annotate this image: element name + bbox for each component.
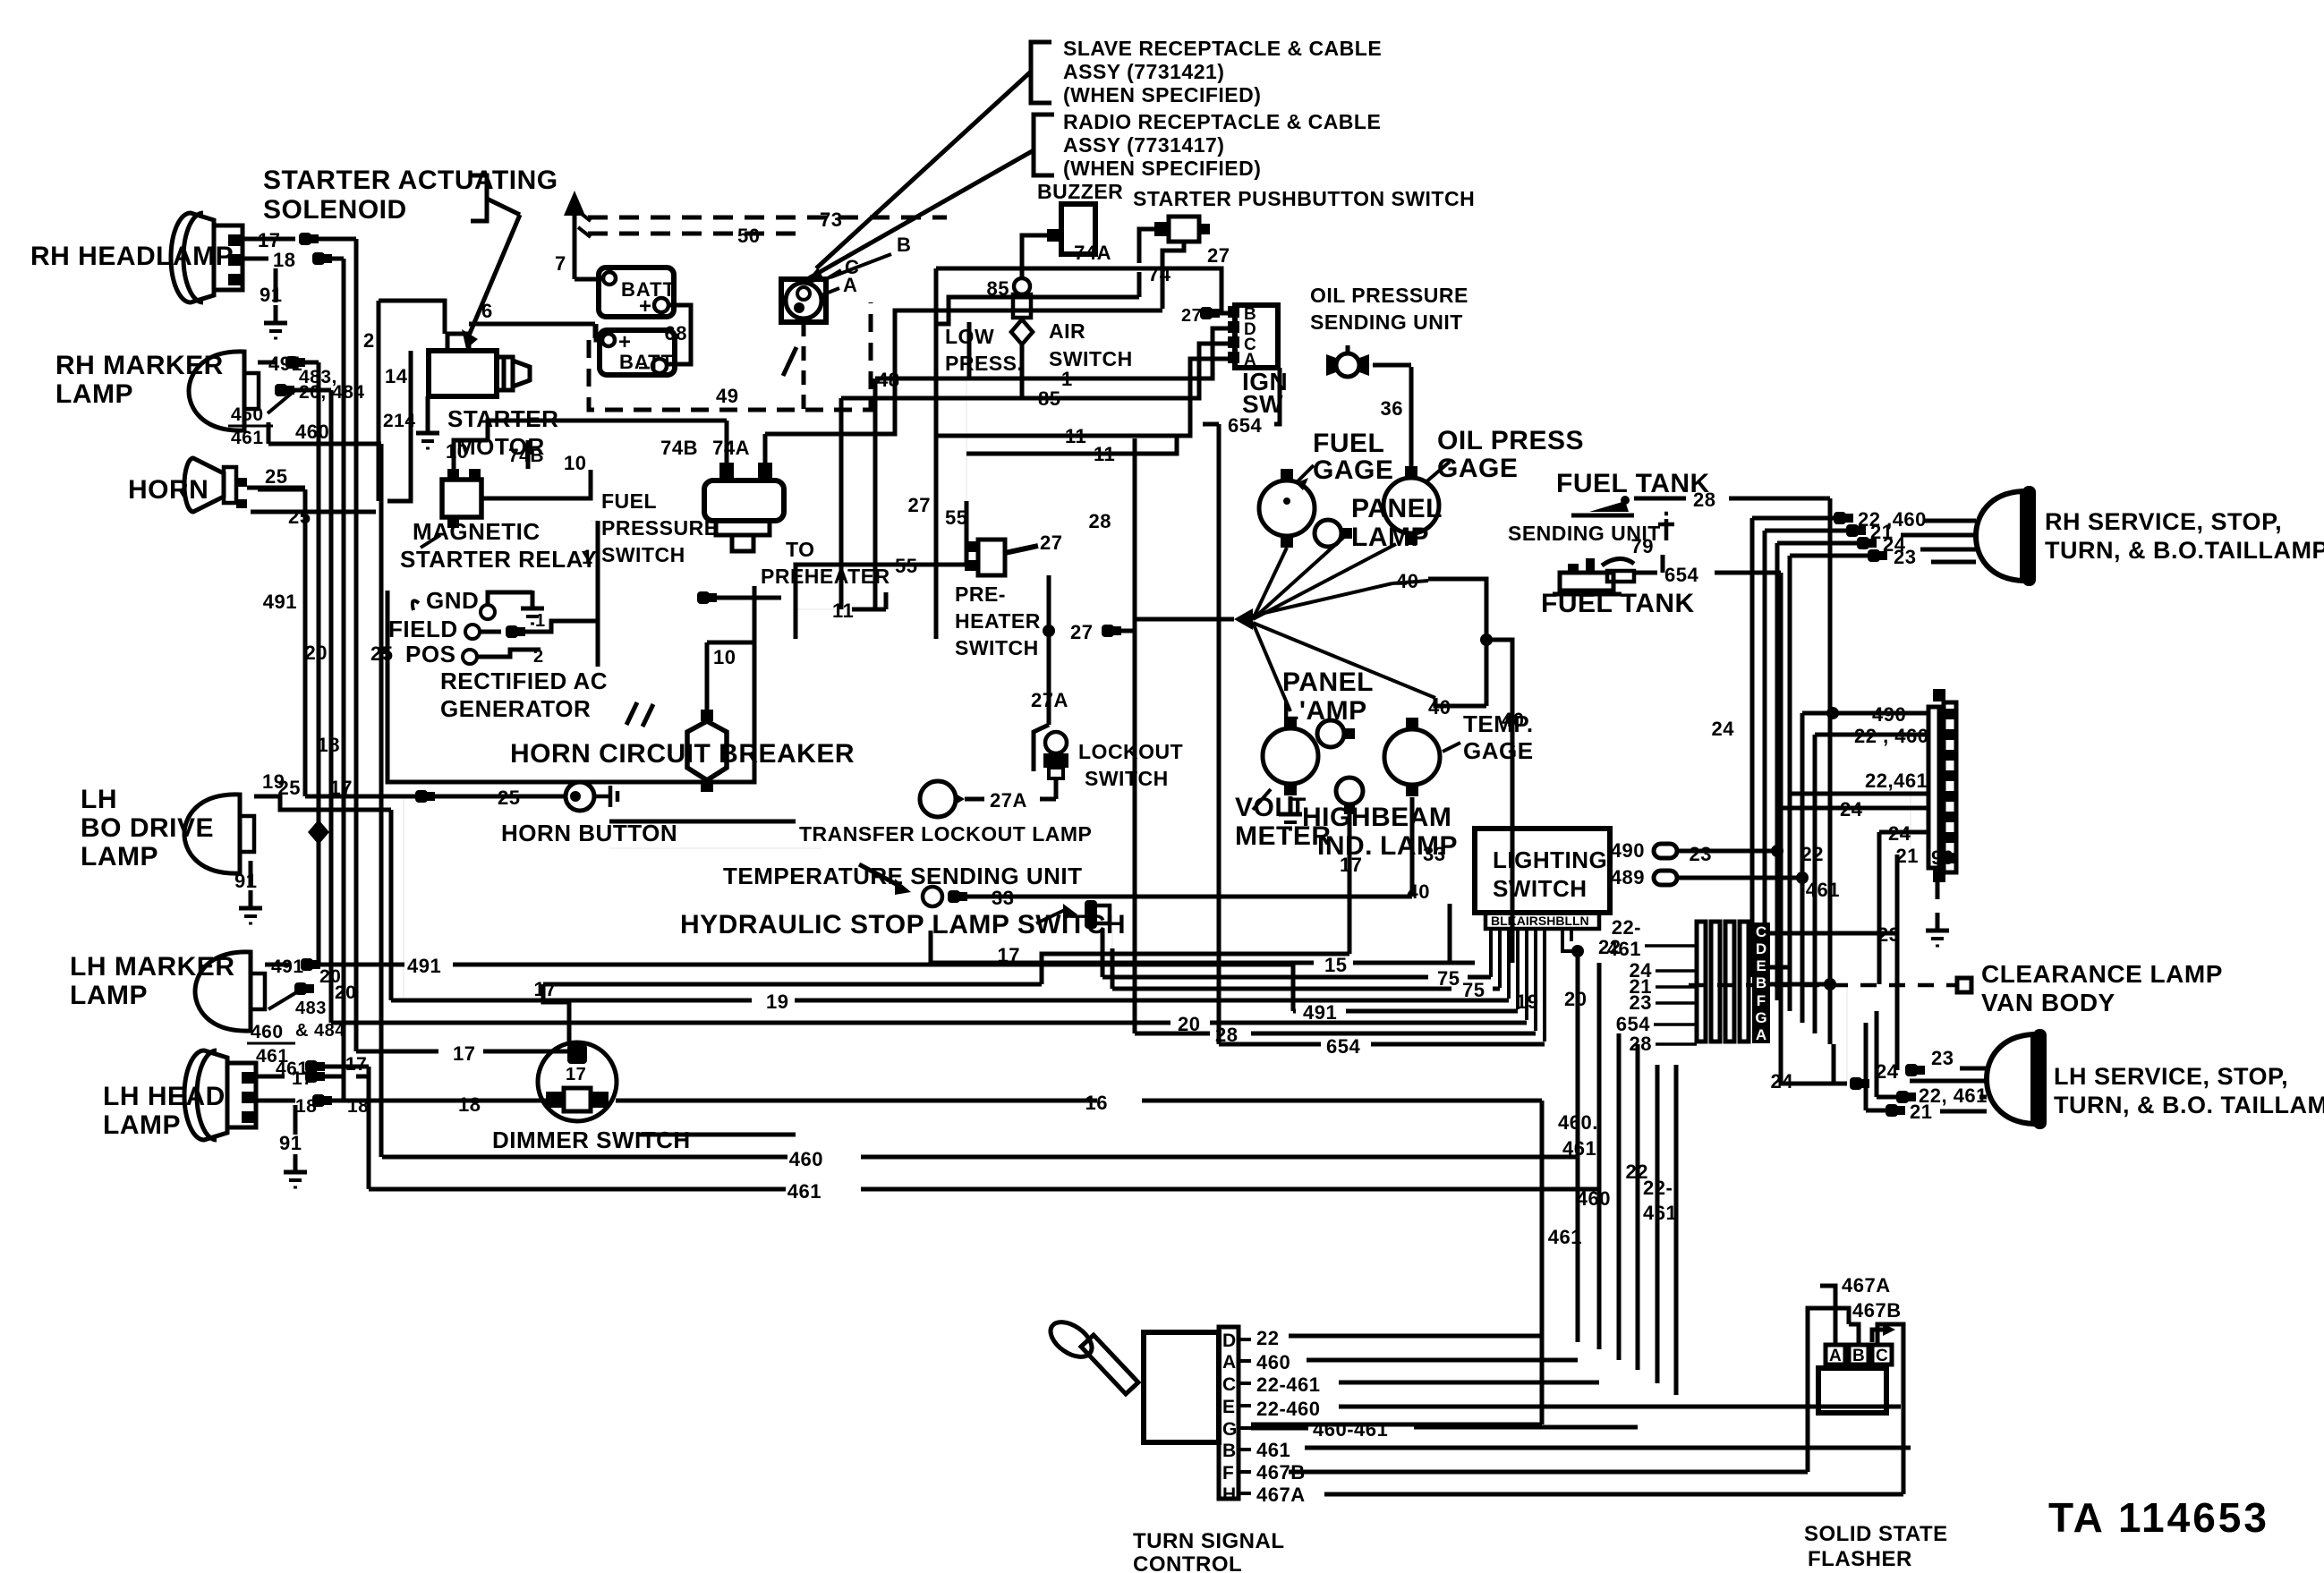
- svg-text:STARTER ACTUATING: STARTER ACTUATING: [263, 166, 558, 195]
- svg-text:HORN: HORN: [128, 475, 209, 505]
- svg-text:PANEL: PANEL: [1282, 667, 1374, 697]
- svg-text:TURN SIGNAL: TURN SIGNAL: [1133, 1529, 1285, 1553]
- svg-text:22-: 22-: [1643, 1177, 1673, 1199]
- svg-text:460: 460: [1577, 1187, 1611, 1210]
- svg-text:(WHEN SPECIFIED): (WHEN SPECIFIED): [1063, 83, 1261, 106]
- svg-text:74A: 74A: [1074, 242, 1111, 264]
- svg-text:461: 461: [1562, 1137, 1596, 1160]
- svg-text:H: H: [1222, 1484, 1237, 1505]
- svg-text:460: 460: [231, 404, 264, 425]
- svg-text:A: A: [1244, 351, 1256, 370]
- svg-text:23: 23: [1630, 991, 1652, 1014]
- svg-text:91: 91: [279, 1132, 302, 1154]
- svg-text:22: 22: [1256, 1327, 1279, 1349]
- svg-text:RH SERVICE, STOP,: RH SERVICE, STOP,: [2045, 508, 2282, 535]
- svg-text:G: G: [1222, 1419, 1238, 1440]
- svg-text:654: 654: [1228, 414, 1262, 437]
- svg-text:LH SERVICE, STOP,: LH SERVICE, STOP,: [2054, 1063, 2288, 1090]
- svg-text:461: 461: [1607, 938, 1641, 960]
- svg-text:21: 21: [1910, 1101, 1932, 1123]
- svg-text:22 , 460: 22 , 460: [1854, 725, 1929, 747]
- svg-text:19: 19: [1516, 991, 1538, 1013]
- svg-text:19: 19: [766, 991, 788, 1013]
- svg-text:TRANSFER LOCKOUT LAMP: TRANSFER LOCKOUT LAMP: [799, 822, 1092, 846]
- svg-text:2: 2: [533, 647, 544, 667]
- svg-text:460: 460: [789, 1148, 823, 1170]
- svg-text:B: B: [1756, 974, 1766, 991]
- svg-text:A: A: [1222, 1352, 1237, 1373]
- svg-text:20: 20: [1564, 988, 1587, 1010]
- svg-text:460-461: 460-461: [1313, 1418, 1388, 1441]
- svg-text:TEMP.: TEMP.: [1463, 710, 1534, 737]
- svg-text:490: 490: [1872, 703, 1906, 726]
- svg-text:LAMP: LAMP: [70, 981, 148, 1010]
- svg-text:22-461: 22-461: [1256, 1373, 1321, 1396]
- svg-text:91: 91: [234, 870, 257, 892]
- svg-text:PREHEATER: PREHEATER: [761, 565, 890, 588]
- svg-text:27: 27: [908, 494, 931, 516]
- svg-text:461: 461: [231, 428, 264, 448]
- svg-text:C: C: [1876, 1347, 1888, 1365]
- svg-text:18: 18: [458, 1093, 481, 1116]
- svg-text:HORN CIRCUIT BREAKER: HORN CIRCUIT BREAKER: [510, 739, 855, 769]
- svg-text:LIGHTING: LIGHTING: [1493, 846, 1607, 873]
- svg-text:27A: 27A: [990, 789, 1027, 812]
- svg-text:D: D: [1222, 1331, 1237, 1351]
- svg-text:OIL PRESSURE: OIL PRESSURE: [1310, 284, 1468, 307]
- svg-text:LH MARKER: LH MARKER: [70, 952, 235, 982]
- svg-text:PRE-: PRE-: [955, 582, 1006, 606]
- svg-text:27: 27: [1040, 531, 1062, 554]
- svg-text:74A: 74A: [712, 437, 750, 459]
- svg-text:25: 25: [498, 786, 520, 809]
- svg-text:HEATER: HEATER: [955, 609, 1041, 633]
- svg-text:E: E: [1756, 957, 1766, 974]
- svg-text:25: 25: [288, 506, 311, 528]
- svg-text:22: 22: [1801, 843, 1824, 865]
- svg-text:10: 10: [564, 452, 586, 474]
- svg-text:LAMP: LAMP: [55, 379, 133, 409]
- svg-text:STARTER RELAY: STARTER RELAY: [400, 546, 597, 573]
- svg-text:CLEARANCE LAMP: CLEARANCE LAMP: [1981, 960, 2223, 988]
- svg-text:49: 49: [716, 385, 738, 407]
- svg-text:461: 461: [1806, 879, 1840, 901]
- svg-text:491: 491: [271, 957, 304, 977]
- svg-text:491: 491: [407, 955, 441, 977]
- svg-text:SWITCH: SWITCH: [601, 543, 685, 566]
- svg-text:24: 24: [1840, 798, 1863, 821]
- svg-text:85: 85: [1038, 387, 1060, 410]
- svg-text:6: 6: [481, 300, 493, 322]
- svg-text:LOCKOUT: LOCKOUT: [1078, 740, 1183, 763]
- svg-text:(WHEN SPECIFIED): (WHEN SPECIFIED): [1063, 157, 1261, 180]
- svg-text:SOLENOID: SOLENOID: [263, 195, 407, 225]
- svg-text:RH HEADLAMP: RH HEADLAMP: [30, 242, 234, 271]
- svg-text:28: 28: [1630, 1033, 1652, 1055]
- svg-text:27: 27: [1181, 306, 1202, 326]
- svg-text:RADIO RECEPTACLE & CABLE: RADIO RECEPTACLE & CABLE: [1063, 110, 1381, 133]
- svg-text:LH: LH: [81, 785, 117, 814]
- svg-text:C: C: [1222, 1374, 1237, 1395]
- svg-text:1: 1: [1061, 368, 1073, 390]
- svg-text:PRESS.: PRESS.: [945, 352, 1023, 375]
- svg-text:460: 460: [1256, 1351, 1290, 1373]
- svg-text:FUEL TANK: FUEL TANK: [1556, 469, 1710, 498]
- svg-text:17: 17: [534, 978, 557, 1000]
- svg-text:17: 17: [566, 1065, 586, 1084]
- svg-text:11: 11: [1065, 425, 1086, 447]
- svg-text:FIELD: FIELD: [388, 616, 458, 642]
- svg-text:F: F: [1222, 1463, 1234, 1484]
- svg-text:40: 40: [1408, 880, 1430, 903]
- svg-text:18: 18: [318, 734, 340, 756]
- svg-text:24: 24: [1888, 822, 1911, 845]
- svg-text:25: 25: [265, 465, 287, 488]
- svg-text:483: 483: [295, 999, 327, 1018]
- svg-text:214: 214: [383, 411, 416, 431]
- svg-text:79: 79: [1631, 535, 1654, 557]
- svg-text:A: A: [1756, 1026, 1766, 1043]
- svg-text:23: 23: [1894, 546, 1916, 568]
- svg-text:491: 491: [1303, 1001, 1337, 1024]
- svg-text:SENDING UNIT: SENDING UNIT: [1310, 310, 1463, 334]
- svg-text:VOLT: VOLT: [1235, 793, 1307, 822]
- svg-text:7: 7: [555, 252, 566, 275]
- svg-text:B: B: [1222, 1441, 1237, 1461]
- svg-text:RECTIFIED AC: RECTIFIED AC: [440, 667, 608, 694]
- svg-text:25: 25: [370, 642, 393, 665]
- svg-text:11: 11: [832, 599, 854, 622]
- svg-text:11: 11: [1094, 443, 1115, 465]
- svg-text:20: 20: [305, 642, 328, 664]
- svg-text:460.: 460.: [1558, 1111, 1598, 1134]
- svg-text:TO: TO: [786, 538, 815, 561]
- svg-text:FUEL: FUEL: [1313, 429, 1384, 458]
- svg-text:654: 654: [1664, 564, 1698, 586]
- svg-text:FUEL TANK: FUEL TANK: [1541, 589, 1695, 618]
- svg-text:27: 27: [1070, 621, 1093, 643]
- svg-text:TURN, & B.O.TAILLAMP: TURN, & B.O.TAILLAMP: [2045, 537, 2324, 564]
- svg-text:460: 460: [295, 421, 329, 443]
- svg-text:2: 2: [363, 329, 375, 352]
- svg-text:POS: POS: [405, 641, 455, 667]
- svg-text:467A: 467A: [1842, 1274, 1891, 1297]
- svg-text:23: 23: [1690, 843, 1712, 865]
- svg-text:467B: 467B: [1852, 1299, 1902, 1322]
- svg-text:23: 23: [1931, 1047, 1954, 1069]
- svg-text:GENERATOR: GENERATOR: [440, 695, 591, 722]
- svg-text:DIMMER SWITCH: DIMMER SWITCH: [492, 1127, 691, 1153]
- svg-text:VAN BODY: VAN BODY: [1981, 989, 2115, 1016]
- svg-text:+: +: [639, 294, 652, 319]
- svg-text:LAMP: LAMP: [81, 842, 158, 872]
- svg-text:BO DRIVE: BO DRIVE: [81, 813, 214, 843]
- svg-text:LAMP: LAMP: [1380, 831, 1458, 861]
- svg-text:OIL PRESS: OIL PRESS: [1437, 426, 1584, 455]
- svg-text:1: 1: [582, 546, 593, 568]
- svg-text:10: 10: [446, 440, 468, 463]
- svg-text:C: C: [1756, 923, 1766, 940]
- svg-text:461: 461: [1256, 1439, 1290, 1461]
- svg-text:L'AMP: L'AMP: [1282, 696, 1367, 726]
- svg-text:18: 18: [273, 249, 295, 271]
- svg-text:SWITCH: SWITCH: [1085, 767, 1169, 790]
- svg-text:SLAVE RECEPTACLE & CABLE: SLAVE RECEPTACLE & CABLE: [1063, 37, 1382, 60]
- svg-text:75: 75: [1462, 979, 1485, 1001]
- svg-text:28: 28: [1693, 489, 1715, 511]
- svg-text:A: A: [843, 274, 857, 296]
- svg-text:491: 491: [263, 591, 297, 613]
- svg-text:50: 50: [737, 225, 760, 247]
- svg-text:461: 461: [787, 1180, 821, 1203]
- svg-text:BLKAIRSHBLLN: BLKAIRSHBLLN: [1491, 914, 1589, 928]
- svg-text:STARTER PUSHBUTTON SWITCH: STARTER PUSHBUTTON SWITCH: [1133, 187, 1475, 210]
- svg-text:HIGH: HIGH: [1302, 803, 1371, 832]
- svg-text:PANEL: PANEL: [1351, 494, 1443, 523]
- svg-text:14: 14: [385, 365, 408, 387]
- svg-text:33: 33: [992, 887, 1014, 909]
- svg-text:17: 17: [345, 1054, 367, 1075]
- svg-text:BUZZER: BUZZER: [1037, 180, 1123, 203]
- svg-text:SWITCH: SWITCH: [1493, 875, 1588, 902]
- svg-text:CONTROL: CONTROL: [1133, 1552, 1242, 1573]
- svg-text:GND: GND: [426, 587, 479, 614]
- svg-text:22-: 22-: [1612, 916, 1641, 939]
- svg-text:461: 461: [1548, 1226, 1582, 1248]
- svg-text:91: 91: [260, 284, 282, 306]
- svg-text:24: 24: [1712, 718, 1735, 740]
- svg-text:74B: 74B: [660, 437, 698, 459]
- svg-text:ASSY (7731417): ASSY (7731417): [1063, 133, 1224, 157]
- svg-text:GAGE: GAGE: [1313, 455, 1393, 485]
- svg-text:PRESSURE: PRESSURE: [601, 516, 719, 540]
- svg-text:28: 28: [1089, 510, 1111, 532]
- svg-text:BEAM: BEAM: [1371, 803, 1451, 832]
- svg-text:ASSY (7731421): ASSY (7731421): [1063, 60, 1224, 83]
- svg-text:17: 17: [453, 1042, 475, 1065]
- svg-text:LAMP: LAMP: [103, 1110, 181, 1140]
- svg-text:24: 24: [1876, 1060, 1899, 1083]
- svg-text:22-460: 22-460: [1256, 1398, 1321, 1420]
- svg-text:FLASHER: FLASHER: [1808, 1547, 1912, 1571]
- svg-text:GAGE: GAGE: [1463, 737, 1534, 764]
- svg-text:SWITCH: SWITCH: [955, 636, 1039, 659]
- svg-text:AIR: AIR: [1049, 319, 1085, 343]
- svg-text:654: 654: [1326, 1035, 1360, 1058]
- svg-text:−: −: [638, 356, 651, 380]
- svg-text:B: B: [897, 234, 911, 256]
- svg-text:RH MARKER: RH MARKER: [55, 351, 224, 380]
- svg-text:55: 55: [895, 555, 917, 577]
- svg-text:TA 114653: TA 114653: [2048, 1494, 2269, 1541]
- svg-text:GAGE: GAGE: [1437, 454, 1518, 483]
- svg-text:489: 489: [1611, 866, 1645, 889]
- svg-text:36: 36: [1381, 397, 1403, 420]
- svg-text:10: 10: [713, 646, 736, 668]
- svg-text:LH HEAD: LH HEAD: [103, 1082, 226, 1111]
- svg-text:FUEL: FUEL: [601, 489, 657, 513]
- svg-text:F: F: [1757, 992, 1766, 1009]
- svg-text:461: 461: [1643, 1202, 1677, 1224]
- svg-text:SOLID STATE: SOLID STATE: [1804, 1522, 1948, 1546]
- svg-text:25: 25: [278, 777, 301, 799]
- svg-text:490: 490: [1611, 839, 1645, 862]
- svg-text:G: G: [1755, 1009, 1766, 1026]
- svg-text:27: 27: [1207, 244, 1230, 267]
- svg-text:90: 90: [1931, 846, 1954, 869]
- svg-text:A: A: [1829, 1347, 1842, 1365]
- svg-text:TURN, & B.O. TAILLAMP: TURN, & B.O. TAILLAMP: [2054, 1092, 2324, 1118]
- svg-text:D: D: [1756, 940, 1766, 957]
- svg-text:E: E: [1222, 1397, 1236, 1417]
- svg-text:15: 15: [1324, 954, 1347, 976]
- svg-text:73: 73: [820, 208, 842, 231]
- svg-text:22,461: 22,461: [1865, 769, 1928, 792]
- svg-text:B: B: [1852, 1347, 1865, 1365]
- svg-text:467A: 467A: [1256, 1484, 1306, 1506]
- svg-text:1: 1: [535, 611, 546, 631]
- svg-text:75: 75: [1437, 967, 1460, 990]
- svg-text:460: 460: [251, 1022, 284, 1042]
